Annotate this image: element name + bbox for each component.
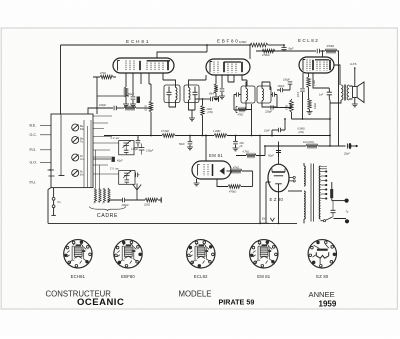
wire ECL82 plate to output transformer — [334, 65, 340, 85]
wire T2B bottom to detector — [262, 95, 277, 108]
coil in T1A — [176, 88, 178, 101]
trimmer CV acc — [123, 143, 129, 145]
trimmer CV acc box — [119, 141, 134, 155]
ground speaker — [354, 98, 356, 105]
resistor 470k grid ECL82 — [325, 49, 337, 53]
cadre brace — [89, 207, 126, 211]
wire EZ80 anode up — [278, 146, 280, 164]
capacitor below trimmer2 — [125, 180, 130, 182]
wire ECH81 cathode leg — [125, 73, 127, 87]
wire stub G.O. — [40, 161, 51, 163]
resistor AF branch — [124, 106, 136, 110]
power transformer core — [311, 164, 314, 222]
wire grid riser — [96, 77, 98, 114]
wire left frame bottom — [48, 188, 51, 224]
IF transformer T1 box B — [184, 85, 199, 103]
transformer top taps — [321, 167, 328, 169]
wire T2A bottom — [234, 95, 246, 111]
wire inner verticals right — [84, 120, 91, 188]
wire T2 tops — [246, 82, 270, 90]
wire EM81 grid from AF bus — [205, 136, 207, 162]
terminal bar AF — [214, 98, 218, 100]
wire bottom bus — [48, 222, 297, 224]
wire osc grid leg — [150, 84, 152, 101]
resistor 470k on coupling line — [262, 49, 275, 53]
wire stub B.E. — [40, 124, 51, 126]
coil in T1B — [189, 88, 191, 101]
capacitor 50nF — [189, 136, 191, 142]
tube ECH81 — [113, 58, 174, 73]
wire grid resistor to AVC rail — [337, 51, 339, 146]
wire EZ80 heater to transformer — [289, 177, 293, 181]
capacitor in T1B — [193, 92, 198, 94]
switch contact G.O. — [72, 170, 79, 177]
wire T1B bottom — [189, 101, 196, 110]
switch contact B.E. — [72, 124, 79, 131]
wire 22k to AF bus — [202, 116, 204, 136]
wire ECH81 g leg — [132, 73, 134, 96]
wire top bus right segment — [268, 44, 284, 46]
capacitor 220pF em — [235, 136, 237, 142]
tube base ECL82 — [187, 240, 215, 268]
switch mains — [323, 220, 325, 222]
wire cap to resistor — [116, 107, 124, 109]
resistor 22k osc — [149, 101, 153, 112]
terminal mains 2 — [345, 219, 349, 223]
tube ECL82 — [299, 57, 334, 73]
capacitor 10nF AF coupling — [278, 128, 280, 133]
capacitor 130pF — [137, 136, 139, 141]
wire mains top — [332, 200, 345, 202]
wire EBF80 plate drop — [242, 75, 247, 86]
capacitor EBF80 screen — [221, 75, 223, 88]
resistor 6.8k — [250, 43, 268, 47]
capacitor under ECH81 — [131, 97, 136, 99]
cadre coil 4 — [108, 188, 110, 203]
wire primary bottom — [330, 100, 341, 103]
electrolytic 20uF — [346, 143, 348, 148]
capacitor 1nF HT — [327, 92, 332, 95]
tube base EBF80 — [114, 240, 142, 268]
fuse — [330, 189, 333, 198]
terminal bar PU — [51, 214, 55, 216]
wire AF bus — [104, 135, 330, 137]
resistor 47k grid ECH81 — [100, 75, 113, 79]
electrolytic 40uF — [93, 158, 111, 160]
potentiometer 1M volume — [280, 99, 292, 108]
wire EM81 cathode to ground — [196, 179, 198, 183]
wire verticals to cadre — [96, 150, 100, 188]
resistor cathode EBF80 — [214, 84, 218, 93]
wire EZ80 enclosure left — [266, 182, 271, 223]
wire EBF80 cathode leg — [215, 75, 217, 84]
resistor cathode ECL82 — [308, 99, 312, 110]
transformer taps — [321, 171, 326, 173]
cadre coil 3 — [103, 188, 105, 203]
wire screen to HT vertical — [313, 73, 329, 90]
capacitor 10nF coupling — [317, 49, 319, 54]
wire secondary to speaker — [349, 86, 353, 99]
wire EBF80 diode leg — [228, 75, 234, 82]
capacitor AF takeoff — [210, 97, 212, 102]
wire EZ80 cathode down — [278, 192, 280, 224]
tube base EM 81 — [250, 240, 278, 268]
wire ECH81 leg to IFT1 — [141, 73, 151, 84]
power transformer primary — [304, 166, 305, 186]
IF transformer T2 box B — [257, 86, 271, 103]
resistor 1k 1W — [306, 144, 318, 148]
capacitor 130uF — [139, 148, 145, 150]
wire T1B return — [191, 110, 193, 118]
wire AF to ECL82 grid riser — [271, 130, 273, 136]
coil in T2B — [262, 89, 264, 101]
resistor 22k cadre — [145, 198, 158, 202]
output transformer primary — [341, 85, 343, 100]
resistor 470k EM81 target — [230, 169, 242, 173]
wire T1A top — [163, 73, 176, 85]
capacitor right of trimmer2 — [136, 173, 138, 178]
wire B+ rail — [265, 145, 346, 147]
ground cathode ECL82 — [309, 110, 311, 112]
wire 100pF branch — [88, 108, 113, 114]
capacitor mains — [331, 210, 336, 212]
speaker — [353, 87, 358, 98]
wire stubs right of box — [93, 116, 119, 174]
terminal bars inside box — [48, 169, 55, 176]
wire EBF80 plate to bus — [249, 45, 251, 59]
capacitor 100pF cadre — [122, 198, 124, 203]
arrowhead on secteur wire — [270, 218, 274, 221]
wire stub O.C. — [40, 134, 51, 136]
resistor 4.7k branch — [236, 146, 265, 156]
coil in T2A — [246, 89, 248, 101]
capacitor beside T2A — [236, 92, 238, 97]
wire coupling line to ECL82 — [256, 50, 316, 52]
wire cathode rail y119 — [292, 118, 331, 120]
cadre coil 2 — [99, 188, 101, 203]
resistor 0.5M — [162, 134, 175, 138]
wire det resistor — [246, 104, 252, 136]
capacitor 8uF vertical — [283, 45, 285, 47]
wire EM81 bottom leg — [217, 179, 228, 187]
wire cadre line — [109, 200, 161, 203]
wire ECH81 grid stub — [93, 76, 116, 78]
terminal mains 1 — [345, 199, 349, 203]
wire top HT bus — [61, 44, 251, 46]
ground cathode ECH81 — [125, 97, 127, 104]
wire osc resistor to AF bus — [150, 112, 152, 136]
resistor 47k det — [236, 107, 238, 113]
ground EBF80 cathode — [215, 93, 217, 97]
wire branch to osc node — [136, 107, 151, 109]
capacitor in T1A — [167, 92, 172, 94]
wire EM81 target lead — [227, 170, 231, 172]
wire T1A bottom — [169, 101, 176, 107]
terminal P.U. lower — [52, 205, 55, 208]
capacitor in trimmer1 box — [124, 150, 129, 152]
trimmer CV osc — [124, 173, 130, 175]
wire EZ80 to primary mid — [288, 190, 302, 192]
wire transformer primary top — [303, 163, 305, 223]
wire pot to AF coupling — [281, 112, 292, 130]
output transformer core — [344, 85, 345, 101]
resistor 22k 1W — [202, 99, 204, 106]
electrolytic 50uF — [278, 142, 280, 147]
IF transformer T2 box A — [241, 86, 255, 103]
capacitor 100pF — [114, 106, 116, 111]
capacitor 10nF screen ECL82 — [302, 73, 304, 88]
wire x61 end bar — [59, 175, 65, 177]
wire left frame vertical — [60, 45, 62, 114]
wire HT vertical x330 — [328, 97, 331, 146]
antenna — [133, 184, 141, 201]
band switch box — [51, 114, 93, 188]
resistor 1.2M — [214, 134, 227, 138]
power transformer secondary — [319, 166, 320, 219]
wire lower resistor joins node — [241, 186, 253, 188]
wire T1B top to EBF80 grid — [189, 75, 207, 85]
capacitor 100pF det — [289, 84, 291, 90]
switch contact P.O. — [72, 154, 79, 161]
cadre coil 1 — [94, 188, 96, 203]
wire vertical x260 — [259, 136, 261, 224]
wire between stacked resistors — [308, 88, 310, 99]
capacitor 220pF detector — [262, 106, 271, 108]
wire PU links — [53, 188, 55, 216]
wire stub P.O. — [40, 149, 51, 151]
trimmer CV osc box — [119, 171, 135, 185]
resistor 2.2k ECL82 — [308, 73, 310, 77]
wire trimmer1 to cap130 — [134, 147, 142, 149]
wire AF takeoff — [195, 98, 210, 100]
wire target resistor to node — [242, 171, 253, 187]
tube base EZ 80 — [308, 240, 336, 268]
terminal bar cadre — [160, 197, 162, 202]
wire ECH81 plate link — [157, 45, 207, 58]
IF transformer T1 box A — [164, 85, 180, 103]
capacitor 3n3 — [280, 88, 282, 93]
terminal P.U. upper — [52, 197, 55, 200]
wire speaker top terminal — [354, 68, 356, 87]
tube EM81 — [192, 161, 231, 179]
wire ECL82 grid tap — [322, 51, 324, 57]
resistor cathode ECH81 — [124, 87, 128, 97]
tube base ECH81 — [64, 240, 92, 268]
tube EZ80 — [268, 164, 289, 192]
switch contact O.C. — [72, 137, 79, 144]
heater terminal circles — [293, 176, 295, 178]
electrolytic 50uF under ECH81 — [137, 97, 140, 104]
resistor 470k EM81 lower — [228, 185, 241, 189]
capacitor beside T2B — [272, 92, 274, 97]
wire g2 link — [97, 95, 129, 97]
wire inner vertical — [60, 114, 62, 176]
output transformer secondary — [347, 85, 349, 100]
tube EBF80 — [206, 59, 250, 75]
